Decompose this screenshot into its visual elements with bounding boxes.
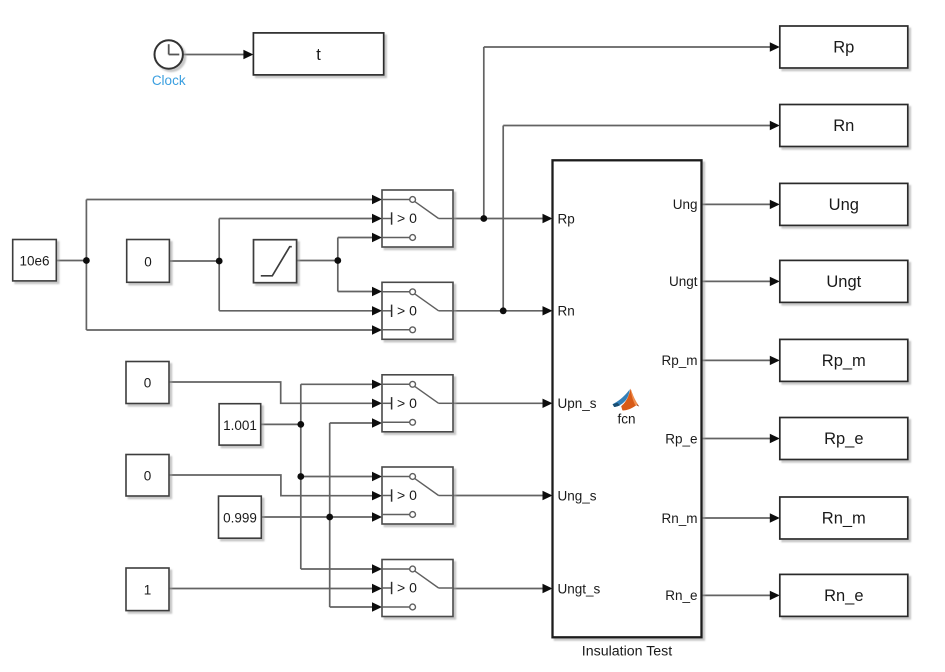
svg-text:1.001: 1.001: [223, 418, 257, 433]
svg-text:Ung: Ung: [829, 196, 859, 214]
svg-text:Rn_m: Rn_m: [661, 511, 697, 526]
svg-text:Rn: Rn: [833, 117, 854, 135]
svg-text:0: 0: [144, 376, 152, 391]
svg-text:Rp_e: Rp_e: [665, 431, 697, 446]
svg-text:Rn_e: Rn_e: [824, 587, 863, 605]
svg-text:Ungt: Ungt: [669, 274, 698, 289]
svg-text:Rp_m: Rp_m: [661, 353, 697, 368]
svg-text:Rp: Rp: [833, 39, 854, 57]
svg-text:Ung_s: Ung_s: [558, 488, 597, 503]
svg-text:0: 0: [144, 469, 152, 484]
svg-text:0: 0: [144, 255, 152, 270]
svg-text:1: 1: [144, 583, 152, 598]
svg-text:0.999: 0.999: [223, 510, 257, 525]
svg-text:Rn: Rn: [558, 304, 575, 319]
svg-text:10e6: 10e6: [19, 254, 49, 269]
svg-text:t: t: [316, 46, 321, 64]
svg-text:Ungt: Ungt: [826, 273, 861, 291]
svg-text:Insulation Test: Insulation Test: [582, 643, 672, 659]
svg-text:Rn_m: Rn_m: [822, 510, 866, 528]
svg-text:Rn_e: Rn_e: [665, 588, 697, 603]
svg-text:Rp_m: Rp_m: [822, 352, 866, 370]
svg-text:Upn_s: Upn_s: [558, 396, 597, 411]
svg-text:Ungt_s: Ungt_s: [558, 581, 601, 596]
svg-text:Rp_e: Rp_e: [824, 430, 863, 448]
svg-text:Rp: Rp: [558, 211, 575, 226]
svg-text:fcn: fcn: [617, 412, 635, 427]
svg-text:Ung: Ung: [673, 197, 698, 212]
svg-text:Clock: Clock: [152, 73, 186, 88]
